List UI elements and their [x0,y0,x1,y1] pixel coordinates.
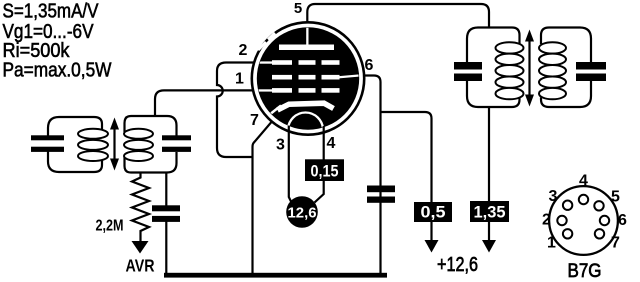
svg-text:5: 5 [294,0,302,17]
tank1 coupling arrow [113,127,115,161]
grid g1 dashes row3 [272,88,292,93]
svg-text:7: 7 [250,112,259,129]
svg-text:2: 2 [542,212,551,229]
tank1 primary capacitor [31,135,64,140]
svg-text:1: 1 [547,235,556,252]
wire pin1 (g1) left with hop over g3 wire, down to tank L2 [155,90,262,116]
tube black interior [257,27,359,129]
right primary capacitor [454,62,482,70]
grid row1 entry lead white [256,61,273,63]
wire pin7 cathode lead down to ground bus [253,116,278,275]
svg-text:3: 3 [276,137,285,154]
AVR arrowhead [132,241,149,254]
anode bar [279,45,334,51]
wire pin6 (g2) right and down to ground bus [355,76,381,275]
right coupling arrow [528,40,530,95]
svg-text:4: 4 [579,173,588,190]
wire pin5 anode to top rail to right IF transformer [307,4,489,29]
0,15 current box [305,159,344,181]
wire right transformer primary down [488,107,490,202]
svg-text:4: 4 [327,135,336,152]
B7G pin 5 [594,201,603,210]
heater arc [288,113,323,130]
1,35 current box [470,201,509,222]
tube envelope U1 [252,22,364,134]
B7G pin 6 [600,216,609,225]
svg-text:0,5: 0,5 [421,203,446,222]
0,5 current box [414,202,452,222]
svg-text:1,35: 1,35 [474,203,506,222]
B7G pin 4 [579,195,588,204]
svg-text:12,6: 12,6 [288,205,317,222]
right IF transformer: primary box [467,28,520,108]
svg-text:Pa=max.0,5W: Pa=max.0,5W [3,60,112,82]
resistor R1 2,2M zigzag [132,173,149,243]
B7G base outline [549,186,618,255]
decoupling capacitor C3 [152,205,180,211]
ground bus [164,273,387,278]
cathode hat [278,103,334,110]
tank 1 secondary box [125,116,177,173]
tank1 secondary coil L2 [124,129,153,139]
svg-text:7: 7 [611,235,620,252]
svg-text:0,15: 0,15 [311,162,339,181]
anode decoupling capacitor C4 [367,186,395,193]
left IF transformer: tank 1 primary box [48,117,102,172]
B7G pin 2 [557,216,566,225]
12,6 voltage circle [286,196,318,228]
grid row3 entry lead white [256,89,273,91]
rim artifact dashes [258,33,275,50]
grid g3 dashes row1 [272,60,292,65]
1,35 arrow to +12,6 [488,222,490,240]
right primary coil L3 [496,42,524,53]
0,5 arrow to +12,6 [430,222,432,240]
svg-text:2,2M: 2,2M [96,218,124,235]
grid g2 dashes row2 [272,75,292,80]
right secondary box [541,28,591,108]
heater lead pin3 down [289,126,292,203]
wire tank1 to decoupling cap to bus [165,173,167,275]
svg-text:6: 6 [618,212,627,229]
B7G pin 3 [563,201,572,210]
svg-text:+12,6: +12,6 [437,254,478,276]
anode lead white [306,27,308,46]
svg-text:AVR: AVR [126,256,155,276]
cathode lead white diagonal [264,106,281,120]
right secondary capacitor [576,62,606,70]
svg-text:2: 2 [239,42,248,59]
svg-text:3: 3 [549,188,558,205]
svg-text:6: 6 [365,57,374,74]
B7G pin 1 [563,229,572,238]
wire pin2 (g3) down around to cathode node [217,63,260,158]
svg-text:B7G: B7G [568,261,602,282]
tank1 secondary capacitor [162,135,191,140]
tank1 primary coil L1 [78,129,108,139]
wire branch to 0,5 current arrow [381,112,432,203]
heater lead pin4 down through 0,15 [315,126,324,203]
grid row2 exit lead white [339,74,359,78]
B7G pin 7 [595,229,604,238]
svg-text:S=1,35mA/V: S=1,35mA/V [3,1,100,23]
svg-text:5: 5 [611,189,620,206]
svg-text:1: 1 [235,71,244,88]
right secondary coil L4 [539,42,566,53]
